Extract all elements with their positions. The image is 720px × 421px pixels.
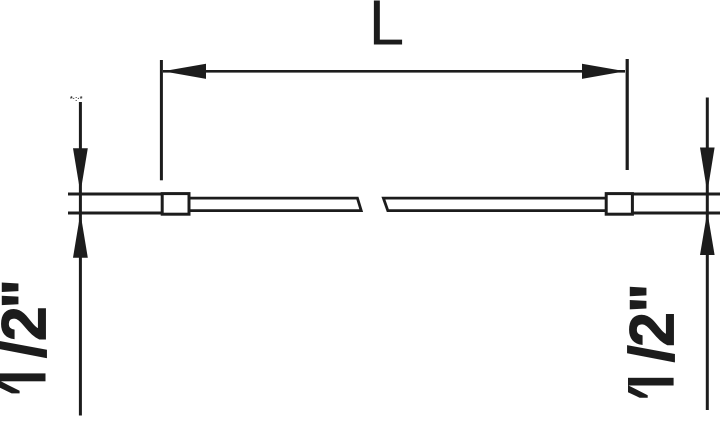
rod thin section left of break bbox=[190, 198, 361, 211]
svg-text:/: / bbox=[0, 341, 60, 359]
svg-text:": " bbox=[0, 279, 60, 309]
rod thin section right of break bbox=[383, 198, 605, 211]
svg-text:*·:·*: *·:·* bbox=[70, 96, 83, 103]
svg-text:2: 2 bbox=[0, 306, 60, 341]
extension line left (top dimension) bbox=[160, 60, 163, 180]
rod left collar bbox=[162, 194, 189, 215]
arrowhead right (L dimension) bbox=[582, 64, 625, 79]
rod right collar bbox=[606, 194, 632, 215]
svg-text:": " bbox=[618, 283, 688, 313]
right arrowhead up bbox=[700, 212, 715, 256]
svg-text:2: 2 bbox=[618, 312, 688, 347]
left arrowhead up bbox=[73, 213, 88, 258]
svg-text:L: L bbox=[369, 0, 405, 59]
extension line right (top dimension) bbox=[626, 59, 629, 170]
left vertical dimension line bbox=[79, 102, 82, 416]
dimension line L bbox=[163, 70, 625, 73]
left arrowhead down bbox=[73, 148, 88, 193]
right label 1/2" bbox=[618, 283, 688, 398]
right vertical dimension line bbox=[706, 98, 709, 411]
arrowhead left (L dimension) bbox=[163, 64, 206, 79]
rod right tube bbox=[632, 194, 720, 213]
right arrowhead down bbox=[700, 148, 715, 193]
rod left tube bbox=[68, 194, 162, 213]
left label 1/2" bbox=[0, 279, 60, 393]
